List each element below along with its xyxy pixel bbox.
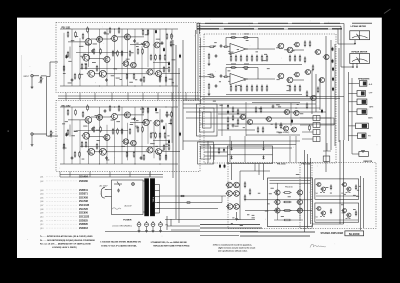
driver pair QL1 bbox=[226, 182, 233, 188]
svg-text:(PH-SPEAK): (PH-SPEAK) bbox=[279, 131, 290, 134]
output row 4 stub a bbox=[274, 219, 283, 221]
wire vertical 2-13 bbox=[153, 124, 155, 158]
driver ground bbox=[235, 212, 238, 220]
wire lower link2 bbox=[171, 229, 200, 231]
value label 2-4 bbox=[83, 125, 87, 128]
wire protection h3 bbox=[246, 134, 300, 136]
svg-text:2.TRANSISTORS, ICs etc. BEING: 2.TRANSISTORS, ICs etc. BEING MAY BE bbox=[151, 241, 188, 244]
wire vertical 1-5 bbox=[99, 29, 101, 77]
value label 1-5 bbox=[93, 43, 97, 46]
transistor Q214 bbox=[154, 149, 161, 155]
meter M1 divider bbox=[359, 31, 361, 40]
svg-text:INPUT: INPUT bbox=[24, 76, 31, 78]
speaker relay box K3 bbox=[357, 99, 367, 105]
wire base link1 2 bbox=[68, 119, 85, 121]
transistor Q206 bbox=[153, 120, 160, 126]
resistor R207 bbox=[112, 128, 114, 135]
junction dot 2 bbox=[99, 164, 100, 165]
driver label 2-12 bbox=[237, 84, 240, 87]
value label 2-23 bbox=[111, 119, 114, 122]
board2 bottom stub 2 bbox=[89, 172, 91, 178]
wire bridge top feed bbox=[183, 140, 300, 142]
capacitor C104 bbox=[161, 41, 164, 45]
wire rd stub 25 bbox=[251, 85, 253, 87]
protection label 12 bbox=[243, 126, 245, 129]
wire bridge feed drop2 bbox=[263, 141, 265, 146]
protection resistor R37 bbox=[255, 106, 257, 113]
resistor R227 bbox=[163, 144, 165, 151]
svg-text:Q03: Q03 bbox=[40, 190, 43, 192]
junction dot 2 bbox=[160, 164, 161, 165]
wire bus top 1 bbox=[197, 23, 344, 25]
protection cap C33 bbox=[272, 105, 275, 109]
board2 bottom stub 3 bbox=[109, 172, 111, 178]
wire into PB-1151 bbox=[47, 76, 51, 78]
transistor QD1c bbox=[294, 42, 300, 47]
meter driver resistor R45 bbox=[306, 102, 308, 109]
wire rd stub 16 bbox=[256, 55, 258, 57]
wire vertical 1-14 bbox=[159, 29, 161, 80]
value label 2-25 bbox=[71, 134, 75, 137]
ground at J1 bbox=[31, 77, 34, 89]
bridge mid wire bbox=[228, 154, 273, 156]
cap column C46 bbox=[332, 87, 334, 91]
wire R right v2 bbox=[363, 178, 365, 228]
wire -B rail board 2 bbox=[60, 163, 178, 165]
dust speck in left border bbox=[8, 131, 9, 132]
label row2 1 bbox=[244, 33, 249, 36]
protection transistor Q37 bbox=[290, 127, 296, 132]
value label 2-7 bbox=[165, 114, 169, 117]
protection transistor Q31 bbox=[246, 119, 252, 124]
driver label 2-3 bbox=[286, 89, 289, 92]
output darlington QR4 bbox=[341, 209, 346, 213]
transistor Q203 bbox=[110, 113, 117, 119]
wire R rail bbox=[316, 195, 358, 197]
connector column long verticals bbox=[196, 30, 201, 104]
wire lower run 1 bbox=[200, 224, 260, 226]
wire out right 1 bbox=[293, 49, 304, 51]
output transistor QP1b bbox=[296, 190, 302, 195]
value label 2-2 bbox=[152, 131, 155, 134]
resistor RD110 bbox=[294, 55, 296, 62]
driver label 1-2 bbox=[264, 53, 267, 56]
board PB-1151 dashed outline bbox=[56, 23, 200, 93]
wire out rail board 1 bbox=[162, 73, 180, 75]
meter M1 scale arc bbox=[352, 36, 368, 38]
resistor R120 bbox=[85, 63, 87, 70]
svg-text:P-551: P-551 bbox=[151, 197, 153, 203]
resistor R205 bbox=[93, 126, 95, 133]
wire rd stub 14 bbox=[246, 55, 248, 57]
junction dot 1 bbox=[160, 86, 161, 87]
resistor RD15 bbox=[251, 55, 253, 62]
capacitor C103 bbox=[133, 39, 136, 43]
transistor Q112 bbox=[129, 62, 136, 68]
value label 1-31 bbox=[63, 72, 66, 75]
wire vertical 1-3 bbox=[79, 38, 81, 86]
driver label 1-9 bbox=[229, 52, 232, 55]
resistor R125 bbox=[166, 33, 168, 40]
resistor R229 bbox=[143, 154, 145, 161]
protection label 5 bbox=[295, 107, 297, 110]
resistor RD18 bbox=[266, 55, 268, 62]
driver label 2-4 bbox=[277, 78, 280, 81]
resistor R232 bbox=[126, 151, 128, 158]
wire lower join v2 bbox=[170, 219, 172, 226]
svg-text:2SC1345: 2SC1345 bbox=[79, 204, 90, 207]
bias transistor Q41 bbox=[314, 49, 320, 54]
resistor RD211 bbox=[299, 85, 301, 92]
resistor RG1 bbox=[208, 53, 210, 60]
value label 2-16 bbox=[155, 145, 158, 148]
svg-text:LOUNGE) LAXH V. RIATE): LOUNGE) LAXH V. RIATE) bbox=[52, 246, 77, 249]
svg-text:B GND, % VOLT, IF LOADING ON B: B GND, % VOLT, IF LOADING ON B RAIL bbox=[101, 244, 137, 247]
value label 1-8 bbox=[169, 78, 173, 81]
svg-text:L/PEAK METER: L/PEAK METER bbox=[351, 25, 367, 28]
resistor R115 bbox=[159, 54, 161, 61]
driver label 1-11 bbox=[246, 39, 249, 42]
transformer tap 6 bbox=[155, 212, 160, 214]
wire vertical 2-15 bbox=[165, 123, 167, 158]
value label 1-25 bbox=[145, 33, 148, 36]
driver label 2-7 bbox=[245, 68, 248, 71]
transistor Q105 bbox=[142, 41, 150, 47]
wire bridge to L v1 bbox=[254, 164, 256, 172]
resistor R109 bbox=[121, 50, 123, 57]
svg-text:2SB541: 2SB541 bbox=[79, 189, 88, 192]
emitter resistor RR2 bbox=[355, 184, 357, 190]
wire cn stub 4 bbox=[302, 138, 313, 140]
value label 2-20 bbox=[130, 123, 133, 126]
wire bridge to L v2 bbox=[258, 164, 260, 176]
value label 1-24 bbox=[136, 45, 139, 48]
wire link5 1 bbox=[89, 58, 104, 60]
resistor R123 bbox=[142, 29, 144, 36]
wire input riser bbox=[49, 62, 51, 77]
svg-text:(COLD GROUNDED): (COLD GROUNDED) bbox=[113, 225, 132, 227]
resistor RD210 bbox=[294, 85, 296, 92]
wire input 1 bbox=[199, 46, 210, 48]
protection nested loop mid bbox=[200, 108, 215, 132]
wire meter drop 2 bbox=[340, 26, 342, 67]
svg-text:AC 120V: AC 120V bbox=[100, 184, 109, 187]
svg-text:Q09: Q09 bbox=[40, 213, 43, 215]
bridge diode D3 bbox=[230, 155, 232, 159]
resistor R128 bbox=[168, 66, 170, 73]
junction dot 2 bbox=[166, 107, 167, 108]
wire secondary run right 3 bbox=[157, 208, 218, 210]
transistor Q111 bbox=[122, 61, 129, 67]
value label 2-33 bbox=[74, 130, 76, 133]
driver pair QL3 bbox=[226, 191, 233, 197]
svg-text:Q13: Q13 bbox=[40, 228, 43, 230]
protection resistor R38 bbox=[260, 106, 262, 113]
connector header CN13 bbox=[313, 130, 320, 135]
wire elbow down bbox=[323, 143, 331, 151]
junction dot 2 bbox=[142, 107, 143, 108]
electrolytic C2E3 bbox=[163, 125, 165, 129]
wire plug to box 2 bbox=[108, 195, 112, 197]
wire vertical 2-8 bbox=[121, 107, 123, 164]
resistor R212 bbox=[142, 126, 144, 133]
wire right bus v3 bbox=[319, 78, 321, 110]
wire presupply v1 bbox=[207, 141, 209, 163]
wire presupply h1 bbox=[204, 151, 228, 153]
input resistor RI2b bbox=[223, 76, 229, 78]
value label 1-7 bbox=[68, 82, 72, 85]
transistor QD2c bbox=[294, 72, 300, 77]
wire out to speaker v1 bbox=[304, 150, 306, 232]
wire rd stub 26 bbox=[256, 85, 258, 87]
value label 2-11 bbox=[104, 138, 107, 141]
wire base link2 1 bbox=[91, 38, 111, 40]
resistor R225 bbox=[166, 111, 168, 118]
speaker relay box K5 bbox=[356, 123, 369, 129]
value label 2-8 bbox=[82, 158, 85, 161]
value label 2-19 bbox=[165, 143, 169, 146]
electrolytic C2E4 bbox=[155, 107, 157, 111]
driver label 2-1 bbox=[287, 84, 290, 87]
wire driver to out v4 bbox=[295, 136, 297, 162]
wire cross y118 bbox=[186, 117, 331, 119]
wire out to speaker v2 bbox=[307, 154, 309, 228]
wire column x173 bbox=[172, 40, 174, 178]
svg-text:2SD218: 2SD218 bbox=[79, 227, 88, 230]
wire vertical 2-5 bbox=[99, 107, 101, 164]
driver label 1-3 bbox=[284, 48, 288, 51]
electrolytic C1E1 bbox=[66, 54, 68, 58]
driver label 2-8 bbox=[219, 80, 221, 83]
wire link7 2 bbox=[106, 151, 147, 153]
svg-text:R/PEAK METER: R/PEAK METER bbox=[352, 51, 368, 54]
value label 2-36 bbox=[150, 142, 155, 145]
resistor R122 bbox=[79, 73, 81, 80]
wire vertical 1-7 bbox=[114, 29, 116, 86]
wire out bottom 3 bbox=[165, 219, 255, 221]
wire lower run 3 bbox=[105, 231, 258, 233]
handwritten signature bbox=[310, 244, 326, 247]
resistor R127 bbox=[163, 66, 165, 73]
bias cap C41 bbox=[332, 47, 334, 51]
resistor R117 bbox=[109, 27, 111, 34]
wire lower join v1 bbox=[166, 216, 168, 230]
value label 2-31 bbox=[116, 120, 120, 123]
resistor R102 bbox=[75, 31, 77, 38]
output transistor QP3b bbox=[296, 208, 302, 213]
capacitor C207 bbox=[71, 156, 74, 160]
resistor R202 bbox=[75, 109, 77, 116]
resistor R130 bbox=[159, 76, 161, 83]
bridge diode D1 bbox=[230, 146, 232, 150]
wire rd stub 11 bbox=[230, 55, 232, 57]
chassis terminal E2 bbox=[145, 221, 149, 227]
inter-board stub 3 bbox=[94, 93, 96, 101]
transistor Q212 bbox=[129, 140, 136, 146]
wire jack J1 to VR1 bbox=[33, 75, 39, 77]
transistor Q205 bbox=[142, 119, 150, 125]
wire driver to out v2 bbox=[244, 136, 246, 162]
board PB-1155 driver dashed outline bbox=[204, 34, 336, 163]
wire link6 2 bbox=[94, 151, 100, 153]
value label 1-12 bbox=[112, 52, 116, 55]
svg-text:2SC458: 2SC458 bbox=[79, 196, 88, 199]
parts list leader 9 bbox=[46, 212, 78, 214]
transistor Q107 bbox=[82, 54, 90, 61]
value label 1-18 bbox=[71, 39, 75, 42]
wire vertical 1-12 bbox=[147, 29, 149, 67]
wire vertical 2-4 bbox=[87, 118, 89, 164]
regulator resistor R61 bbox=[218, 147, 220, 154]
value label 2-1 bbox=[158, 152, 161, 155]
resistor R103 bbox=[82, 33, 84, 40]
wire vertical 2-3 bbox=[79, 120, 81, 164]
meter M1 needle bbox=[357, 34, 360, 39]
resistor R215 bbox=[159, 132, 161, 139]
resistor R236 bbox=[63, 143, 65, 150]
transformer tap 2 bbox=[155, 190, 160, 192]
wire rd stub 18 bbox=[266, 55, 268, 57]
chassis terminal E1 bbox=[137, 221, 141, 227]
driver label 1-7 bbox=[214, 41, 217, 44]
value label 2-18 bbox=[95, 114, 98, 117]
output transistor QP3a bbox=[274, 208, 280, 213]
wire opamp out 2 bbox=[246, 78, 275, 80]
wire spk feed 2 bbox=[349, 92, 358, 94]
protection label 9 bbox=[276, 103, 280, 106]
wire cn stub 1 bbox=[300, 117, 313, 119]
capacitor C203 bbox=[133, 117, 136, 121]
resistor R234 bbox=[96, 143, 98, 150]
transformer tap 3 bbox=[155, 196, 160, 198]
board2 bottom stub 1 bbox=[69, 172, 71, 178]
output loop R lower bbox=[315, 203, 359, 222]
protection resistor R41b bbox=[275, 122, 277, 129]
driver label 2-9 bbox=[244, 79, 246, 82]
svg-text:PB-1156: PB-1156 bbox=[285, 186, 294, 188]
wire rd stub 12 bbox=[235, 55, 237, 57]
resistor R235 bbox=[67, 129, 69, 136]
protection transistor Q33 bbox=[265, 117, 271, 122]
resistor R211 bbox=[137, 126, 139, 133]
protection label 11 bbox=[235, 125, 239, 128]
wire spk bus v2 bbox=[351, 78, 353, 136]
svg-text:PB-1154: PB-1154 bbox=[302, 162, 311, 165]
wire L out join bbox=[245, 199, 312, 201]
wire primary bottom bbox=[143, 211, 145, 213]
output darlington QR1 bbox=[316, 183, 321, 187]
junction dot 1 bbox=[166, 29, 167, 30]
resistor R106 bbox=[100, 48, 102, 55]
wire mid rail b board 2 bbox=[80, 146, 168, 148]
wire dist y148 bbox=[200, 147, 292, 149]
chassis terminal E4 bbox=[159, 221, 163, 227]
driver resistor RL1 bbox=[244, 181, 246, 188]
filter cap C61 bbox=[219, 164, 221, 168]
value label 2-12 bbox=[140, 108, 144, 111]
speaker relay box K6 bbox=[358, 133, 366, 139]
value label 1-36 bbox=[116, 77, 120, 80]
bridge diode D2 bbox=[262, 146, 264, 150]
emitter resistor RR4 bbox=[355, 210, 357, 216]
value label 2-5 bbox=[168, 122, 172, 125]
value label 2-27 bbox=[136, 119, 139, 122]
power transformer T1 core gap bbox=[149, 179, 151, 217]
wire bus top 3 bbox=[197, 28, 338, 30]
transistor Q204 bbox=[123, 112, 130, 118]
wire vertical 1-10 bbox=[134, 29, 136, 68]
value label 1-28 bbox=[159, 75, 162, 78]
wire vertical 1-16 bbox=[171, 29, 173, 86]
driver label 1-12 bbox=[291, 49, 294, 52]
power switch S1 bbox=[114, 182, 122, 187]
wire vertical 2-10 bbox=[134, 107, 136, 164]
emitter resistor RE3 bbox=[283, 210, 292, 212]
svg-text:Di: ...... NON NETWORK(N) DI: Di: ...... NON NETWORK(N) DIO(AR) UNLESS… bbox=[40, 239, 96, 242]
resistor RD25 bbox=[251, 85, 253, 92]
svg-text:Q01: Q01 bbox=[40, 177, 43, 179]
parts list leader 4 bbox=[46, 193, 78, 195]
transformer tap 4 bbox=[155, 202, 160, 204]
junction dot 2 bbox=[135, 164, 136, 165]
remote outlet box bbox=[359, 152, 369, 157]
meter M2 needle bbox=[357, 57, 360, 62]
wire cn stub 2 bbox=[300, 124, 313, 126]
resistor RG2 bbox=[208, 83, 210, 90]
electrolytic C1E4 bbox=[155, 29, 157, 33]
transistor Q101 bbox=[84, 39, 92, 46]
inter-board stub 7 bbox=[157, 93, 159, 101]
wire out to speaker v3 bbox=[310, 158, 312, 224]
transistor Q210 bbox=[98, 148, 106, 155]
value label 2-24 bbox=[161, 149, 163, 152]
ground at J2 bbox=[31, 135, 34, 146]
wire below board2 v1 bbox=[59, 172, 61, 178]
wire link4 2 bbox=[130, 122, 146, 124]
wire VR1 top bbox=[41, 75, 47, 77]
wire spk bus v1 bbox=[348, 72, 350, 141]
value label 2-35 bbox=[89, 152, 92, 155]
resistor R201 bbox=[67, 109, 69, 116]
value label 2-15 bbox=[135, 125, 138, 128]
resistor R126 bbox=[171, 33, 173, 40]
wire VR1 down-bus bbox=[46, 77, 48, 137]
wire L inner v1 bbox=[277, 183, 279, 220]
transistor Q209 bbox=[87, 148, 95, 155]
level pot VR1 bbox=[39, 76, 44, 84]
bias transistor Q42 bbox=[323, 54, 329, 59]
wire rd stub 110 bbox=[294, 55, 296, 57]
bias resistor R41 bbox=[304, 40, 306, 47]
driver label 1-8 bbox=[237, 48, 239, 51]
wire feedback 2 bbox=[226, 67, 258, 69]
value label 1-20 bbox=[160, 42, 164, 45]
wire mid rail a board 2 bbox=[76, 130, 128, 132]
op-amp U1 bbox=[228, 44, 248, 55]
svg-text:1.VOLTAGE VALUES SHOWN, MEASUR: 1.VOLTAGE VALUES SHOWN, MEASURED ON bbox=[100, 241, 141, 244]
board2 bottom stub 4 bbox=[129, 172, 131, 178]
resistor R213 bbox=[150, 132, 152, 139]
switch symbol above remote box bbox=[361, 151, 365, 154]
resistor RD16 bbox=[256, 55, 258, 62]
capacitor C102 bbox=[104, 31, 107, 35]
input jack J2 bbox=[31, 133, 33, 135]
wire vertical 1-2 bbox=[71, 29, 73, 86]
value label 2-26 bbox=[99, 150, 103, 153]
relay box K7 bbox=[323, 156, 330, 161]
resistor R132 bbox=[126, 73, 128, 80]
wire plug to box bbox=[108, 188, 112, 190]
